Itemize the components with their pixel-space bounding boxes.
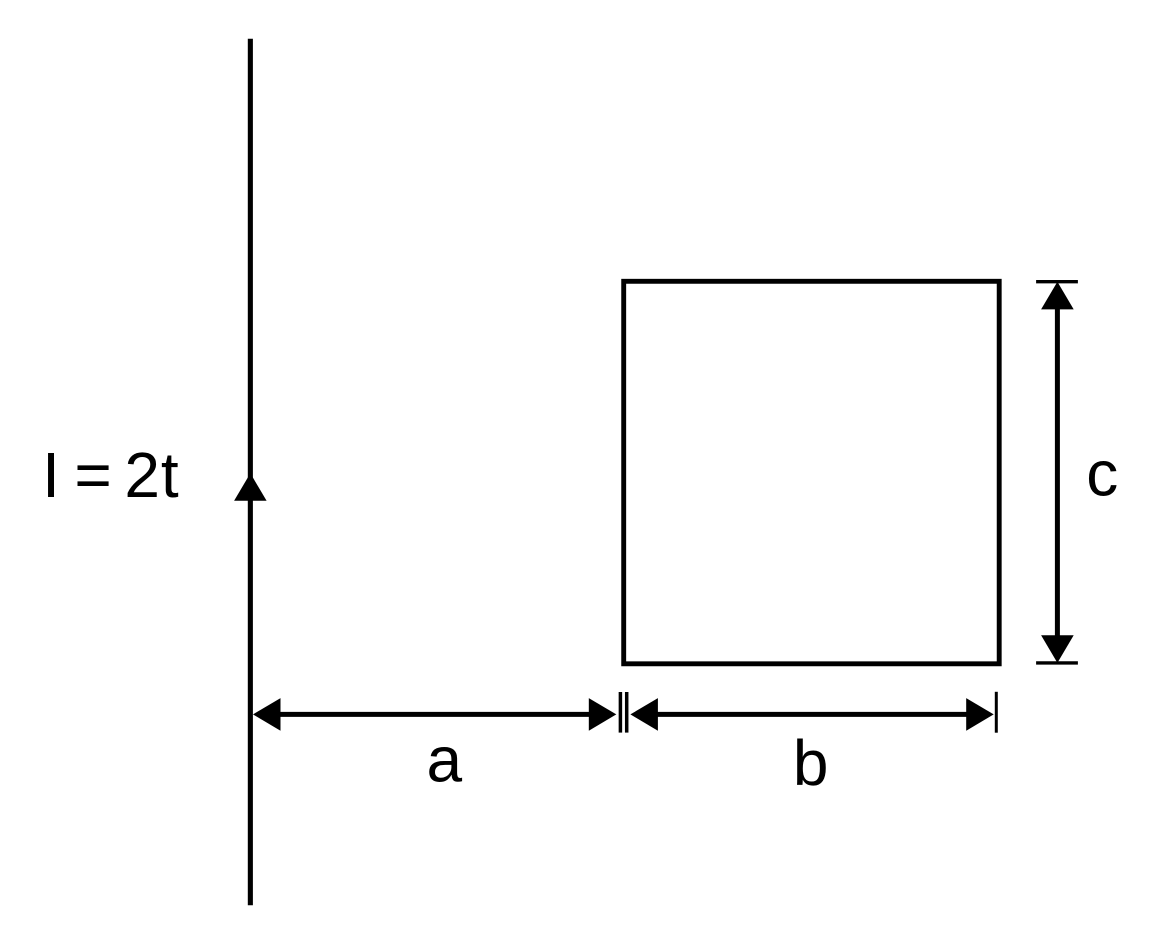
svg-text:a: a bbox=[427, 724, 463, 796]
svg-text:c: c bbox=[1086, 438, 1118, 510]
svg-text:b: b bbox=[793, 727, 829, 799]
